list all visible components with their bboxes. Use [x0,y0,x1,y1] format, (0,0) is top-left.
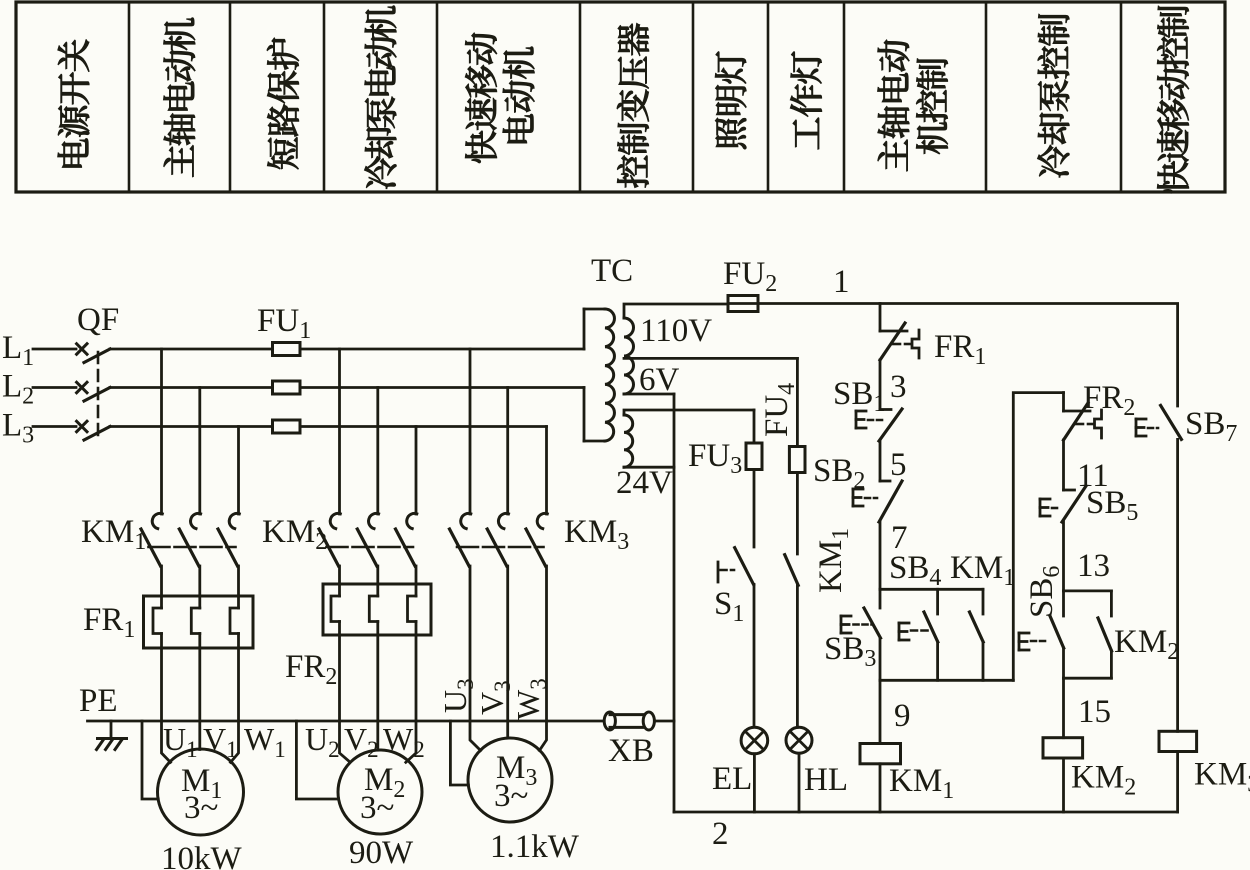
svg-text:1: 1 [833,264,850,300]
transformer TC 24V top lead [624,410,754,415]
wire L3 to KM3 [300,425,547,428]
wire PE to M3 frame [450,721,468,785]
transformer TC primary top lead [584,308,605,311]
wire KM2 pole1 to M2 [340,635,351,762]
svg-text:KM3: KM3 [1194,757,1250,798]
wire PE [88,720,605,723]
fuse FU1 pole 1 [273,343,301,356]
transformer TC 110V/6V tap lead [624,357,797,360]
button SB4 contact [936,589,939,614]
breaker QF linkage [97,352,100,441]
wire KM2 pole2 to M2 [376,635,379,750]
contactor KM2 main contact pole 1 [338,349,341,514]
contactor KM3 main contact pole 2 [506,388,509,515]
wire KM2 block top [1064,590,1112,593]
table label: coolant pump control 冷却泵控制 [1038,14,1070,177]
wire SB7 to KM3 coil [1176,439,1179,731]
wire L2 into TC [583,388,586,442]
button SB4 actuator [898,623,901,640]
contactor KM1 main contact pole 3 [237,427,240,515]
wire rail to FR1 [879,304,882,332]
transformer TC 6V bottom lead [624,393,674,396]
table label: spindle motor 主轴电动机 [164,18,196,177]
wire control bottom rail [674,811,1178,814]
button SB6 actuator [1018,633,1021,650]
wire SB2 to block [879,522,882,589]
wire L1 incoming [33,348,76,351]
button SB5 actuator [1039,499,1042,516]
svg-text:2: 2 [712,816,729,852]
fuse FU4 [796,358,799,446]
wire XB to lamp common [654,720,674,723]
svg-text:XB: XB [608,733,654,769]
button SB1 stop [880,408,891,411]
svg-text:TC: TC [591,253,633,289]
breaker QF pole 2 [77,382,87,392]
fuse FU1 pole 3 [273,420,301,433]
button SB1 actuator [855,411,858,428]
ground symbol [110,721,113,739]
wire FR1 to SB1 [879,360,882,410]
breaker QF pole 3 [77,421,87,431]
contactor KM3 main contact pole 1 [469,349,472,514]
wire KM2 block bottom [1064,677,1112,680]
thermal contact FR2 [1062,393,1065,411]
svg-text:3~: 3~ [184,790,218,826]
wire block to KM1 coil [879,680,882,743]
wire block to KM2 chain [1013,393,1063,681]
wire SB5 to block [1062,522,1065,591]
wire L1 into TC [583,309,586,349]
connector XB [604,712,615,730]
svg-text:3~: 3~ [494,778,528,814]
motor M1 circle [158,749,244,835]
table label: work lamp 工作灯 [790,52,821,150]
contactor KM3 main contact pole 3 [545,427,548,515]
button SB5 [1064,489,1075,492]
coil KM3 [1159,731,1197,751]
contact KM1 selfhold [982,589,985,614]
svg-text:PE: PE [79,683,118,719]
contactor KM1 main contact pole 1 [160,349,163,514]
table label: coolant pump motor 冷却泵电动机 [365,6,397,189]
contact KM2 selfhold [1110,591,1113,616]
breaker QF pole 1 [77,344,87,354]
wire L3 to fuse [110,425,273,428]
table label: rapid traverse motor line1 快速移动 [465,33,497,163]
button SB3 actuator [840,616,843,633]
wire L2 to fuse [110,386,273,389]
wire KM1 pole1 to M1 [162,648,171,762]
transformer TC 24V coil [624,415,633,467]
thermal relay FR2 heater [323,584,431,635]
wire L1 to fuse [110,348,273,351]
svg-text:1.1kW: 1.1kW [490,829,580,865]
contactor KM2 linkage [327,546,414,549]
wire S1 to EL [753,584,756,727]
svg-text:EL: EL [712,761,752,797]
svg-text:QF: QF [77,302,119,338]
table label: short-circuit protection 短路保护 [267,38,299,169]
wire SB1 to SB2 [879,441,882,481]
wire lamp common [673,394,676,812]
wire PE to M1 frame [142,721,158,799]
wire KM1 pole2 to M1 [198,648,201,750]
wire L3 incoming [33,425,76,428]
svg-text:15: 15 [1078,694,1111,730]
thermal contact FR1 [880,330,907,333]
switch S1 [717,562,720,582]
wire KM3 coil to rail [1176,752,1179,813]
svg-text:110V: 110V [640,313,712,349]
wire HL to rail [798,753,801,812]
thermal relay FR1 heater [144,596,254,648]
motor M3 circle [468,738,552,822]
table label: rapid traverse motor line2 电动机 [503,47,535,143]
fuse FU2 [728,302,758,305]
transformer TC secondary coil 110V/6V [624,318,634,394]
svg-text:3: 3 [890,369,907,405]
lamp HL [786,727,812,753]
svg-text:5: 5 [890,447,907,483]
wire KM1 block top [880,588,983,591]
wire PE to M2 frame [296,721,338,799]
transformer TC 110V top lead [624,304,728,318]
fuse FU3 [753,410,756,443]
button SB7 actuator [1135,419,1138,436]
function table frame [16,2,1225,192]
wire KM3 pole2 to M3 [506,566,509,738]
button SB2 start [880,480,890,483]
wire FR2 to SB5 [1062,440,1065,490]
wire EL to rail [753,754,756,812]
button SB6 contact [1062,591,1065,616]
svg-text:10kW: 10kW [161,841,243,870]
fuse FU1 pole 2 [273,381,301,394]
button SB2 actuator [852,489,855,506]
svg-text:9: 9 [894,698,911,734]
table label: rapid traverse control 快速移动控制 [1157,6,1189,193]
wire KM1aux to HL [796,585,799,727]
coil KM2 [1043,738,1083,758]
motor M2 circle [338,750,422,834]
table label: control transformer 控制变压器 [617,23,649,187]
svg-text:90W: 90W [349,835,414,870]
button SB7 [1161,405,1182,439]
svg-text:HL: HL [804,762,848,798]
wire control top rail [758,304,1178,407]
contact KM1 aux on HL line [785,555,799,586]
transformer TC primary coil [605,309,614,441]
transformer TC primary bottom lead [584,440,605,443]
wire KM2 pole3 to M2 [406,635,416,762]
wire block to KM2 coil [1062,678,1065,738]
wire KM3 pole1 to M3 [470,566,481,751]
table label: illumination lamp 照明灯 [715,52,746,149]
transformer TC 24V bottom lead [624,466,674,469]
contactor KM1 linkage [149,546,236,549]
wire KM1 block bottom [880,679,1013,682]
button SB3 contact [879,589,882,608]
lamp EL [741,727,768,754]
wire L1 to TC [300,348,584,351]
wire KM2 coil to rail [1062,758,1065,812]
contactor KM3 linkage [457,546,544,549]
svg-text:13: 13 [1077,548,1110,584]
wire KM1 pole3 to M1 [231,648,239,762]
svg-text:3~: 3~ [360,790,394,826]
table label: power switch 电源开关 [58,40,90,168]
wire L2 incoming [33,386,76,389]
coil KM1 [860,744,901,764]
wire KM3 pole3 to M3 [539,566,546,751]
wire L2 to TC [300,386,584,389]
contactor KM2 main contact pole 3 [415,427,418,515]
table label: spindle motor control line2 机控制 [916,59,947,154]
contactor KM2 main contact pole 2 [376,388,379,515]
table label: spindle motor control line1 主轴电动 [878,40,910,171]
wire KM1 coil to rail [879,764,882,812]
contactor KM1 main contact pole 2 [198,388,201,515]
svg-text:24V: 24V [616,465,673,501]
